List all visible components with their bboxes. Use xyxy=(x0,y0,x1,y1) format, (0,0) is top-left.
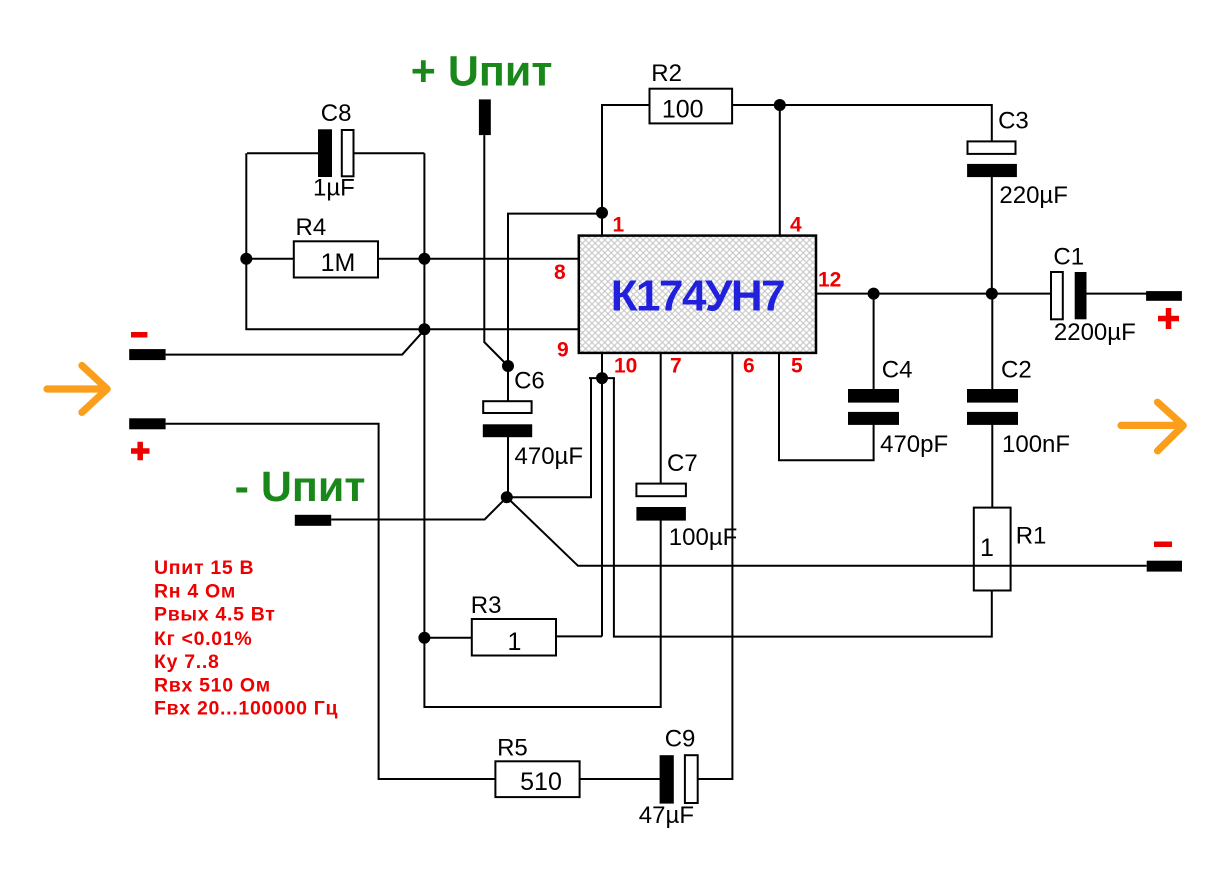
svg-text:+ Uпит: + Uпит xyxy=(411,48,553,96)
wire R1 bottom to staple right leg xyxy=(614,378,992,636)
junction node C6 top / +supply xyxy=(502,360,514,372)
svg-text:100nF: 100nF xyxy=(1002,431,1070,458)
junction node pin 9 / input xyxy=(418,323,430,335)
wire left branch vertical x=246 xyxy=(246,153,424,329)
capacitor C8 (electrolytic, horizontal) xyxy=(313,100,355,202)
resistor R1 (vertical, output line crosses it) xyxy=(974,508,1047,591)
svg-text:R1: R1 xyxy=(1016,523,1047,550)
resistor R4 xyxy=(294,214,378,278)
svg-text:Rн 4 Ом: Rн 4 Ом xyxy=(154,580,236,602)
svg-text:1: 1 xyxy=(508,628,522,656)
svg-text:4: 4 xyxy=(790,214,802,237)
svg-text:100: 100 xyxy=(662,96,704,124)
wire R5 to C9 xyxy=(579,778,660,780)
wire C2 top lead xyxy=(991,294,993,390)
wire pin 10 stub down to R3 lead xyxy=(601,353,603,637)
svg-text:6: 6 xyxy=(743,355,755,378)
svg-text:R2: R2 xyxy=(651,60,682,87)
svg-text:10: 10 xyxy=(614,355,637,378)
junction node pin 4 / R2 xyxy=(774,99,786,111)
wire ground node to staple left leg xyxy=(507,378,591,497)
svg-text:C6: C6 xyxy=(514,367,545,394)
op-amp IC U1 K174UN7 body xyxy=(579,236,816,353)
wire ground node diagonal to output return line xyxy=(507,497,1147,566)
terminal input plus bar xyxy=(129,418,165,429)
junction node R4 left xyxy=(240,253,252,265)
wire node9 to pin 9 xyxy=(424,328,579,330)
svg-text:Рвых 4.5 Вт: Рвых 4.5 Вт xyxy=(154,604,276,626)
svg-text:1µF: 1µF xyxy=(313,175,355,202)
wire C8 left lead xyxy=(247,152,319,154)
svg-text:Кг <0.01%: Кг <0.01% xyxy=(154,628,252,650)
wire C6 top lead xyxy=(507,366,509,404)
svg-text:C8: C8 xyxy=(321,100,352,127)
svg-text:5: 5 xyxy=(791,355,803,378)
svg-text:7: 7 xyxy=(670,355,682,378)
input minus polarity mark xyxy=(131,332,147,338)
capacitor C3 (electrolytic, vertical) xyxy=(967,108,1068,209)
svg-text:- Uпит: - Uпит xyxy=(235,463,366,511)
output plus polarity mark xyxy=(1158,308,1179,329)
resistor R3 xyxy=(471,592,556,656)
wire pin1 node to C6 node xyxy=(508,214,602,366)
svg-text:1M: 1M xyxy=(321,249,356,277)
input signal arrow (orange) xyxy=(47,366,107,413)
wire C1 to output plus terminal xyxy=(1086,293,1147,295)
junction node pin 10 xyxy=(596,372,608,384)
wire C4 top lead xyxy=(873,294,875,390)
wire C9 to pin 6 xyxy=(697,353,732,779)
wire pin 7 stub to C7 xyxy=(660,353,662,485)
capacitor C7 (electrolytic, vertical) xyxy=(636,450,737,551)
svg-text:Rвх 510 Ом: Rвх 510 Ом xyxy=(154,674,271,696)
junction node C4 top / bus xyxy=(868,288,880,300)
svg-text:510: 510 xyxy=(520,768,562,796)
svg-text:R5: R5 xyxy=(497,734,528,761)
svg-text:R3: R3 xyxy=(471,592,502,619)
output minus polarity mark xyxy=(1154,542,1172,548)
svg-text:2200µF: 2200µF xyxy=(1054,319,1136,346)
svg-text:1: 1 xyxy=(613,214,625,237)
wire -Upit lead to ground node xyxy=(331,497,507,519)
junction node pin 1 xyxy=(596,207,608,219)
wire C6 bottom lead xyxy=(507,437,509,497)
resistor R2 xyxy=(650,60,733,124)
capacitor C1 (electrolytic, horizontal) xyxy=(1051,244,1136,346)
wire R4 left lead xyxy=(246,258,294,260)
capacitor C2 (ceramic) xyxy=(967,356,1070,458)
wire +Upit vertical with diagonal to C6 node xyxy=(484,135,508,366)
terminal +Upit bar xyxy=(479,99,491,135)
wire C2 bottom lead to R1 xyxy=(991,424,993,508)
wire R3 left lead xyxy=(424,637,473,639)
WIRES_START xyxy=(166,105,1147,779)
output signal arrow (orange) xyxy=(1121,402,1183,451)
terminal -Upit bar xyxy=(295,515,331,526)
svg-text:8: 8 xyxy=(554,261,566,284)
wire main left vertical bus x=424 (C8/R4 node down to bottom turn) xyxy=(424,153,660,707)
wire input minus to node9 xyxy=(166,330,425,355)
svg-text:47µF: 47µF xyxy=(639,802,694,829)
svg-text:12: 12 xyxy=(818,269,841,292)
svg-text:Fвх 20...100000 Гц: Fвх 20...100000 Гц xyxy=(154,698,338,720)
capacitor C6 (electrolytic, vertical) xyxy=(483,367,583,470)
junction node R3 left xyxy=(418,632,430,644)
svg-text:Ку 7..8: Ку 7..8 xyxy=(154,651,220,673)
capacitor C4 (ceramic) xyxy=(848,356,948,458)
svg-text:C9: C9 xyxy=(665,726,696,753)
wire R3 right lead xyxy=(555,635,602,637)
terminal output plus bar xyxy=(1146,291,1182,301)
svg-text:C7: C7 xyxy=(667,450,698,477)
svg-text:1: 1 xyxy=(980,534,994,562)
input plus polarity mark xyxy=(131,442,150,461)
wire R2 right to C3 top, pin 4 branch xyxy=(732,105,992,143)
svg-text:C3: C3 xyxy=(998,108,1029,135)
junction node R4 right xyxy=(418,253,430,265)
svg-text:C2: C2 xyxy=(1001,356,1032,383)
capacitor C9 (electrolytic, horizontal) xyxy=(639,726,698,829)
svg-text:470µF: 470µF xyxy=(515,443,584,470)
svg-text:C1: C1 xyxy=(1053,244,1084,271)
svg-text:R4: R4 xyxy=(296,214,327,241)
wire output bus pin12 to C1 xyxy=(816,293,1052,295)
wire R4 right lead to pin 8 xyxy=(377,258,580,260)
svg-text:Uпит 15 В: Uпит 15 В xyxy=(154,557,254,579)
wire C8 right lead down to node R4-right xyxy=(353,152,425,154)
wire input plus down to R5 xyxy=(166,424,496,779)
junction node C3 bottom / bus xyxy=(986,288,998,300)
svg-text:100µF: 100µF xyxy=(669,524,738,551)
junction node ground / C6 bottom xyxy=(501,491,513,503)
svg-text:220µF: 220µF xyxy=(999,182,1068,209)
svg-text:C4: C4 xyxy=(882,356,913,383)
svg-text:9: 9 xyxy=(557,339,569,362)
wire staple cap at pin 10 node xyxy=(589,377,615,379)
wire C3 bottom to output bus xyxy=(991,177,993,294)
wire pin 1 stub and up to R2 xyxy=(602,105,650,236)
svg-text:470pF: 470pF xyxy=(880,431,948,458)
terminal input minus bar xyxy=(129,349,165,360)
svg-text:К174УН7: К174УН7 xyxy=(611,272,784,321)
terminal output minus bar xyxy=(1147,561,1182,572)
wire pin 5 to C4 bottom xyxy=(779,353,874,460)
resistor R5 xyxy=(495,734,579,797)
wire pin 4 stub xyxy=(779,105,781,236)
